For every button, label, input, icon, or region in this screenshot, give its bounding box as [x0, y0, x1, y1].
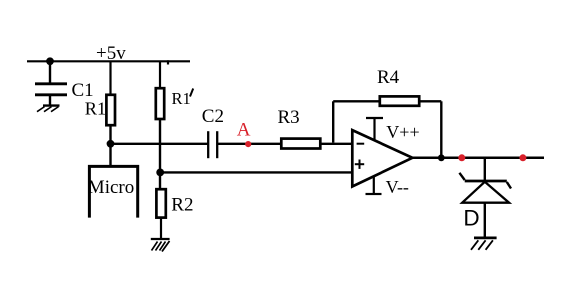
- resistor R3: [281, 139, 320, 149]
- wire R1 to node and Micro: [109, 125, 111, 166]
- R3 label: [278, 107, 300, 128]
- wire R1' to R2: [159, 119, 161, 189]
- wire rail to R1: [109, 61, 111, 95]
- svg-text:A: A: [237, 120, 251, 141]
- ground (under C1): [37, 106, 60, 112]
- wire node to C2: [111, 143, 209, 145]
- node: junction dot R1/Micro/signal: [107, 140, 115, 148]
- +5v power rail wire: [27, 60, 190, 64]
- wire zener to ground: [484, 203, 486, 238]
- svg-text:R2: R2: [171, 195, 193, 216]
- node A label (red): [237, 120, 251, 141]
- C2 label: [202, 106, 224, 127]
- +5v label: [96, 43, 126, 64]
- svg-text:R4: R4: [377, 67, 400, 88]
- R1' label: [172, 89, 194, 109]
- capacitor C2: [208, 131, 217, 158]
- resistor R2: [156, 189, 165, 217]
- capacitor C1: [35, 84, 67, 95]
- resistor R4: [380, 96, 419, 105]
- svg-text:V--: V--: [386, 177, 409, 197]
- ground (under D): [471, 238, 497, 250]
- resistor R1: [106, 95, 115, 125]
- svg-text:Micro: Micro: [88, 177, 134, 198]
- svg-text:R3: R3: [278, 107, 300, 128]
- C1 value label: [72, 80, 94, 101]
- svg-text:R1: R1: [172, 89, 191, 108]
- ground (under R2): [151, 239, 170, 252]
- node: red dot left on output: [458, 154, 465, 161]
- wire R4 to output node: [419, 101, 441, 158]
- wire rail to R1': [159, 61, 161, 88]
- V-- power pin: [366, 177, 382, 195]
- wire R3 to op-amp inverting input: [320, 143, 352, 145]
- node: output junction dot: [438, 154, 445, 161]
- wire feedback node down to inverting input: [332, 101, 334, 142]
- svg-text:C2: C2: [202, 106, 224, 127]
- zener diode D: [459, 173, 511, 203]
- wire feedback left to R4: [333, 100, 380, 102]
- R1 label: [85, 99, 106, 119]
- node A dot (red): [245, 141, 251, 147]
- V++ label: [386, 122, 419, 142]
- wire op-amp output: [412, 157, 544, 160]
- V++ power pin: [366, 118, 383, 141]
- svg-text:+5v: +5v: [96, 43, 126, 64]
- op-amp U1: [352, 130, 412, 186]
- Micro label: [88, 177, 134, 198]
- R4 label: [377, 67, 400, 88]
- Micro block: [89, 166, 137, 217]
- R2 label: [171, 195, 193, 216]
- svg-text:R1: R1: [85, 99, 106, 119]
- svg-text:D: D: [463, 206, 479, 231]
- wire divider node to op-amp non-inverting input: [160, 171, 352, 173]
- wire R2 to ground: [160, 218, 162, 239]
- wire output to zener D: [484, 158, 486, 181]
- resistor R1': [156, 88, 164, 119]
- D label: [463, 206, 479, 231]
- node: red dot right on output: [519, 154, 526, 161]
- wire C1 to ground: [49, 95, 51, 106]
- node: junction dot divider: [156, 169, 164, 177]
- node: junction dot on rail at C1: [46, 57, 54, 65]
- svg-text:V++: V++: [386, 122, 419, 142]
- wire rail to C1: [49, 61, 51, 83]
- V-- label: [386, 177, 409, 197]
- wire C2 to R3: [217, 143, 281, 145]
